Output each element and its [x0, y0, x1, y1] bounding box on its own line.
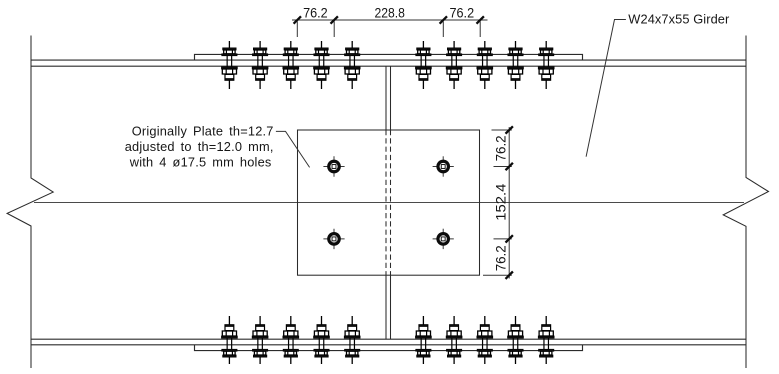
bottom flange bolt 8 [477, 316, 493, 364]
svg-text:adjusted to th=12.0 mm,: adjusted to th=12.0 mm, [125, 139, 274, 154]
svg-text:228.8: 228.8 [375, 5, 405, 20]
girder centerline (horizontal axis) [34, 202, 744, 204]
bottom flange bolt 1 [222, 316, 238, 364]
note leader line [276, 131, 310, 167]
bottom flange bolt 4 [314, 316, 330, 364]
top flange bolt 1 [222, 41, 238, 89]
web plate bolt (plan) 3 [323, 229, 344, 249]
web splice plate outline [298, 130, 480, 275]
bottom flange bottom edge [31, 344, 746, 346]
dimension extension line [333, 22, 335, 38]
top flange top edge [31, 59, 746, 61]
dimension tick [506, 163, 513, 170]
dimension extension line [296, 22, 298, 38]
svg-text:76.2: 76.2 [493, 245, 508, 271]
dimension extension line [494, 238, 512, 240]
svg-text:with 4 ø17.5 mm holes: with 4 ø17.5 mm holes [129, 155, 272, 170]
top flange bottom edge [31, 65, 746, 67]
girder end gap lines solid below web plate [385, 275, 387, 339]
dimension extension line [479, 22, 481, 38]
top flange bolt 10 [538, 41, 554, 89]
bottom flange bolt 9 [508, 316, 524, 364]
top flange bolt 4 [314, 41, 330, 89]
dimension tick [506, 235, 513, 242]
girder label leader line [586, 20, 626, 157]
top flange bolt 2 [252, 41, 268, 89]
dimension tick [440, 16, 447, 23]
svg-text:W24x7x55 Girder: W24x7x55 Girder [628, 12, 730, 27]
svg-text:76.2: 76.2 [450, 5, 475, 20]
bottom flange bolt 7 [446, 316, 462, 364]
dimension tick [506, 126, 513, 133]
bottom flange bolt 2 [252, 316, 268, 364]
bottom flange top edge [31, 338, 746, 340]
web plate bolt (plan) 4 [433, 229, 454, 249]
dimension extension line [483, 274, 512, 276]
bottom flange bolt 6 [416, 316, 432, 364]
web plate bolt (plan) 1 [323, 156, 344, 176]
dimension tick [331, 16, 338, 23]
top flange splice plate [195, 54, 583, 60]
top flange bolt 6 [416, 41, 432, 89]
bottom flange splice plate [195, 345, 583, 351]
dimension extension line [442, 22, 444, 38]
right break line [723, 36, 768, 369]
right dimension line [508, 127, 510, 279]
svg-text:152.4: 152.4 [493, 183, 508, 221]
top flange bolt 7 [446, 41, 462, 89]
dimension tick [506, 272, 513, 279]
dimension extension line [494, 166, 512, 168]
svg-text:76.2: 76.2 [493, 135, 508, 161]
left break line [7, 36, 53, 369]
dimension extension line [492, 129, 512, 131]
dimension tick [477, 16, 484, 23]
web plate bolt (plan) 2 [433, 156, 454, 176]
top dimension line [292, 19, 488, 21]
svg-text:76.2: 76.2 [303, 5, 328, 20]
top flange bolt 5 [344, 41, 360, 89]
bottom flange bolt 10 [538, 316, 554, 364]
dimension tick [294, 16, 301, 23]
top flange bolt 9 [508, 41, 524, 89]
girder end gap lines solid above web plate [385, 66, 387, 130]
bottom flange bolt 5 [344, 316, 360, 364]
top flange bolt 3 [283, 41, 299, 89]
top flange bolt 8 [477, 41, 493, 89]
svg-text:Originally Plate th=12.7: Originally Plate th=12.7 [132, 124, 274, 139]
girder end gap lines hidden behind web plate (dashed) [385, 130, 387, 275]
bottom flange bolt 3 [283, 316, 299, 364]
